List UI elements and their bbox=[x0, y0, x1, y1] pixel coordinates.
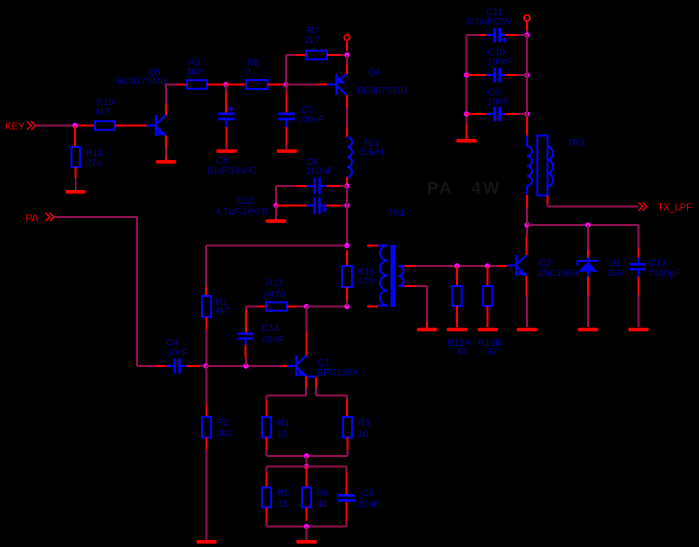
label R1 value bbox=[215, 297, 230, 317]
resistor R6 bbox=[302, 488, 311, 508]
svg-text:100nF: 100nF bbox=[487, 57, 514, 68]
wire C8 bottom stub (blue) bbox=[226, 120, 228, 127]
junction C10 right bbox=[524, 72, 529, 77]
transistor Q2 bbox=[507, 255, 527, 276]
wire Q2 emitter to ground bbox=[526, 296, 528, 327]
resistor R7 bbox=[306, 51, 327, 60]
junction TL1/C6 bbox=[344, 183, 349, 188]
label R2 value bbox=[216, 418, 231, 440]
transistor Q1 emitter extension bbox=[306, 375, 317, 377]
wire R16 top pin (red) bbox=[346, 250, 348, 266]
junction rail/D1 bbox=[585, 222, 590, 227]
resistor R17 bbox=[266, 302, 287, 310]
wire R3 top pin (red) bbox=[346, 400, 348, 417]
wire net C12 to junction bbox=[340, 205, 347, 207]
svg-text:R17: R17 bbox=[266, 278, 283, 289]
junction R16 bottom/TR1 bottom bbox=[344, 304, 349, 309]
wire R11 top pin bbox=[74, 126, 76, 148]
wire net right rail to TR2 (red) bbox=[526, 118, 528, 136]
transformer TR2 core rectangle bbox=[537, 136, 547, 196]
label C13 value bbox=[648, 258, 680, 279]
supply terminal circle top bbox=[524, 15, 530, 21]
label R17 value bbox=[264, 278, 285, 301]
label C11 value bbox=[466, 7, 513, 28]
svg-text:100uF/25V: 100uF/25V bbox=[466, 17, 513, 28]
inductor TL1 bbox=[347, 137, 352, 177]
label TR2 name bbox=[567, 138, 585, 149]
wire C14 bottom pin (red) bbox=[245, 345, 247, 358]
svg-text:BC817SMD: BC817SMD bbox=[117, 76, 167, 87]
wire net R5 box bottom rail bbox=[267, 521, 347, 527]
wire left rail ground stem (red) bbox=[466, 125, 468, 139]
wire net Q4 emitter to junction bbox=[346, 55, 348, 64]
wire C11 right stub (blue) bbox=[500, 34, 506, 36]
capacitor C10 bbox=[493, 68, 501, 83]
svg-text:PA: PA bbox=[26, 213, 39, 225]
wire R17 left pin (red) bbox=[257, 306, 266, 308]
wire net Q1 emitter left branch bbox=[267, 387, 307, 400]
svg-text:R2: R2 bbox=[217, 418, 229, 429]
svg-text:100nF: 100nF bbox=[306, 166, 333, 177]
resistor R12A bbox=[452, 286, 461, 306]
wire R12B top pin (red) bbox=[487, 266, 489, 286]
svg-text:4.7uF/16V-B: 4.7uF/16V-B bbox=[216, 207, 269, 218]
junction R9/C8/R8 bbox=[223, 82, 228, 87]
wire net R16 bottom bbox=[346, 301, 348, 307]
transformer TR1 secondary winding bbox=[399, 266, 404, 286]
wire R5 bottom pin (red) bbox=[266, 508, 268, 522]
label R8 value bbox=[245, 58, 259, 78]
resistor R12B bbox=[483, 286, 492, 306]
wire TL1 bottom pin (red) bbox=[346, 177, 348, 186]
wire pin R10 left (red) bbox=[80, 125, 95, 127]
wire net R8 to Q4 base bbox=[286, 84, 317, 86]
wire C8 bottom pin (red) bbox=[226, 127, 228, 145]
svg-text:2k2: 2k2 bbox=[216, 428, 231, 439]
ground under D1 bbox=[578, 328, 598, 332]
label R7 value bbox=[305, 26, 320, 47]
capacitor C5 bbox=[338, 494, 355, 502]
wire D1 top pin (red) bbox=[587, 250, 589, 258]
wire C11 left stub (blue) bbox=[487, 34, 494, 36]
label C5 value bbox=[358, 488, 380, 510]
svg-text:C5: C5 bbox=[362, 488, 374, 499]
wire net R5 box top rail bbox=[267, 467, 347, 473]
wire Q5 collector pin stub (red) bbox=[165, 104, 167, 115]
svg-text:C14: C14 bbox=[262, 323, 279, 334]
wire R1 top pin (red) bbox=[205, 287, 207, 296]
wire net TL1 down to R16 row bbox=[346, 186, 348, 246]
port chevron KEY bbox=[27, 121, 36, 129]
junction R7/Q4 emitter/supply bbox=[344, 52, 349, 57]
junction R16 top/TR1 top bbox=[344, 243, 349, 248]
transistor Q5 bbox=[147, 115, 167, 136]
transformer TR1 primary stub bottom bbox=[378, 305, 388, 307]
wire C10 left stub (blue) bbox=[487, 74, 494, 76]
wire net R1 to base row bbox=[206, 330, 208, 366]
wire net C11 to rail bbox=[517, 34, 527, 36]
capacitor C14 bbox=[238, 333, 254, 340]
wire Q4 emitter pin up (red) bbox=[346, 64, 348, 74]
wire net up to R7 row bbox=[286, 55, 296, 85]
svg-text:2SC1969: 2SC1969 bbox=[538, 268, 578, 279]
label R12A value bbox=[447, 338, 471, 358]
wire C4 left pin (red) bbox=[156, 365, 167, 367]
wire net C4 to junction bbox=[199, 365, 206, 367]
net label TX_LPF bbox=[658, 203, 693, 214]
label C8 value bbox=[206, 156, 257, 177]
transformer TR2 secondary winding bbox=[548, 143, 554, 196]
wire C10 right pin (red) bbox=[506, 74, 519, 76]
svg-text:470: 470 bbox=[358, 276, 374, 287]
wire C13 bottom stub (blue) bbox=[638, 271, 640, 277]
ground under C13 bbox=[628, 328, 648, 332]
wire R11 bottom pin bbox=[75, 167, 77, 178]
wire TL1 top pin (red) bbox=[346, 127, 348, 137]
wire C4 left stub (blue) bbox=[167, 365, 174, 367]
label R12B value bbox=[478, 338, 502, 358]
label R3 value bbox=[358, 418, 370, 440]
wire C11 left pin (red) bbox=[480, 34, 487, 36]
wire C12 left stub (blue) bbox=[307, 205, 314, 207]
wire net TX_LPF run bbox=[548, 204, 639, 207]
wire C14 top pin (red) bbox=[245, 310, 247, 333]
label TR1 name bbox=[387, 208, 405, 219]
svg-text:#1nF: #1nF bbox=[262, 335, 284, 346]
diode D1 zener bbox=[578, 258, 599, 277]
wire TR1 primary top pin (red) bbox=[367, 245, 378, 247]
ground under C7 bbox=[277, 149, 297, 153]
wire Q2 base pin (red) bbox=[497, 265, 507, 267]
resistor R11 bbox=[71, 147, 80, 167]
wire net R2 top bbox=[206, 366, 208, 405]
resistor R3 bbox=[343, 417, 352, 438]
wire R7 right pin (red) bbox=[327, 54, 340, 56]
svg-text:#120pF: #120pF bbox=[648, 268, 680, 279]
svg-text:#470: #470 bbox=[264, 290, 285, 301]
svg-text:10: 10 bbox=[358, 429, 369, 440]
svg-text:0: 0 bbox=[245, 67, 250, 78]
wire C10 left pin (red) bbox=[467, 74, 487, 76]
label R9 value bbox=[186, 58, 201, 78]
resistor R9 bbox=[187, 80, 207, 89]
capacitor C12 bbox=[314, 197, 321, 214]
wire net C9 right bbox=[518, 113, 527, 115]
ground under C8 bbox=[216, 149, 236, 153]
junction R12A top bbox=[454, 263, 459, 268]
wire net R4-R3 bottom rail bbox=[267, 450, 348, 456]
capacitor C11 plus sign bbox=[502, 38, 507, 43]
wire C4 right pin (red) bbox=[187, 365, 200, 367]
wire TR1 secondary top pin (red) bbox=[405, 265, 416, 267]
ground under R11 bbox=[66, 190, 86, 194]
capacitor C13 bbox=[630, 263, 646, 271]
wire C4 right stub (blue) bbox=[180, 365, 187, 367]
wire Q1 base pin (red) bbox=[282, 365, 287, 367]
transformer TR1 secondary stub top bbox=[399, 265, 406, 267]
transformer TR1 primary winding bbox=[380, 246, 388, 306]
wire net collector rail bbox=[527, 224, 639, 226]
wire net supply to C11 bbox=[526, 30, 528, 35]
label C14 value bbox=[262, 323, 284, 346]
wire net feedback row bbox=[206, 246, 347, 288]
wire net C13 top bbox=[638, 225, 640, 248]
svg-text:BC807SMD: BC807SMD bbox=[357, 86, 407, 97]
wire R2 top pin (red) bbox=[206, 405, 208, 417]
supply terminal circle bbox=[344, 35, 349, 40]
ground under C12 bbox=[266, 219, 286, 223]
wire D1 bottom pin (red) bbox=[587, 277, 589, 296]
wire net R17 row to R16 bbox=[307, 306, 348, 308]
wire C14 bottom stub (blue) bbox=[245, 340, 247, 345]
label R4 value bbox=[277, 418, 289, 440]
capacitor C12 plus sign bbox=[322, 207, 327, 212]
label R16 value bbox=[358, 267, 375, 288]
svg-text:R3: R3 bbox=[358, 418, 370, 429]
svg-text:10uF/16V-C: 10uF/16V-C bbox=[206, 166, 257, 177]
junction R12B top bbox=[485, 263, 490, 268]
wire net PA run bbox=[55, 217, 157, 366]
wire net C10 right bbox=[518, 74, 527, 76]
wire net base row bbox=[206, 365, 282, 367]
label C12 value bbox=[216, 196, 269, 218]
wire box ground stem bbox=[306, 527, 308, 541]
wire C7 to ground bbox=[286, 145, 288, 150]
svg-text:10nF: 10nF bbox=[167, 348, 189, 359]
svg-text:36V: 36V bbox=[608, 268, 626, 279]
wire net Q4 collector to TL1 bbox=[346, 108, 348, 127]
wire net C14 to base row bbox=[245, 358, 247, 366]
wire R12B bottom pin (red) bbox=[487, 306, 489, 327]
label C6 value bbox=[306, 157, 333, 177]
wire C11 right pin (red) bbox=[506, 34, 519, 36]
junction C11 right bbox=[524, 32, 529, 37]
resistor R16 bbox=[342, 266, 352, 287]
junction C10 left bbox=[464, 72, 469, 77]
wire net TR2 primary to rail bbox=[526, 208, 528, 225]
ground under R2 bbox=[196, 540, 216, 544]
wire C5 top pin (red) bbox=[346, 472, 348, 494]
wire net C7 top bbox=[286, 85, 288, 94]
wire net R17 to junction bbox=[297, 306, 307, 308]
wire net C8 top bbox=[225, 85, 227, 94]
wire Q5 emitter to ground bbox=[165, 148, 167, 158]
wire net Q2 base row bbox=[415, 265, 497, 267]
wire net Q2 collector to rail bbox=[526, 225, 528, 236]
transistor Q1 bbox=[287, 356, 307, 377]
wire net left rail bbox=[467, 35, 481, 125]
wire Q1 emitter left pin (red) bbox=[305, 377, 307, 388]
wire TR1 primary bottom pin (red) bbox=[367, 306, 378, 308]
capacitor C11 bbox=[493, 28, 501, 43]
wire C7 bottom stub (blue) bbox=[286, 120, 288, 127]
svg-text:4k7: 4k7 bbox=[215, 306, 230, 317]
junction C12 left bbox=[273, 203, 278, 208]
junction R17/Q1 collector bbox=[304, 304, 309, 309]
wire Q4 collector pin down (red) bbox=[346, 95, 348, 108]
svg-text:47: 47 bbox=[487, 347, 498, 358]
ground under capacitor bank bbox=[456, 139, 476, 143]
wire net R7 to junction bbox=[340, 54, 347, 56]
wire C9 right pin (red) bbox=[506, 113, 519, 115]
svg-text:R4: R4 bbox=[277, 418, 289, 429]
wire Q5 ground stem (red) bbox=[165, 157, 167, 162]
svg-text:TX_LPF: TX_LPF bbox=[658, 203, 693, 214]
svg-text:10: 10 bbox=[277, 429, 288, 440]
label TL1 value bbox=[361, 138, 384, 158]
transformer TR1 primary stub top bbox=[378, 245, 388, 247]
wire C13 bottom pin (red) bbox=[638, 277, 640, 296]
svg-text:53uH: 53uH bbox=[361, 147, 384, 158]
wire R1 bottom pin (red) bbox=[206, 317, 208, 330]
svg-text:PA 4W: PA 4W bbox=[427, 179, 501, 198]
wire Q5 emitter pin stub (red) bbox=[165, 136, 167, 148]
label D1 value bbox=[608, 258, 626, 279]
wire net TR1 sec bottom to ground bbox=[416, 286, 427, 327]
svg-text:27k: 27k bbox=[86, 158, 102, 169]
wire C6 left stub (blue) bbox=[307, 185, 314, 187]
wire C6 right pin (red) bbox=[327, 185, 341, 187]
wire net Q1 collector riser bbox=[306, 307, 308, 333]
wire R6 top pin (red) bbox=[306, 467, 308, 488]
wire Q1 collector pin (red) bbox=[306, 332, 308, 356]
wire Q2 emitter pin (red) bbox=[526, 276, 528, 296]
label Q5 name bbox=[117, 67, 167, 87]
wire C5 bottom pin (red) bbox=[346, 502, 348, 521]
wire R9 left pin (red) bbox=[177, 84, 188, 86]
wire R2 bottom pin (red) bbox=[206, 438, 208, 451]
wire R6 bottom pin (red) bbox=[306, 508, 308, 522]
wire R16 bottom pin (red) bbox=[346, 287, 348, 301]
wire C6 left pin (red) bbox=[296, 185, 307, 187]
wire pin R10 right to Q5 base (red) bbox=[115, 125, 147, 127]
resistor R1 bbox=[202, 296, 211, 317]
wire net R2 to ground bbox=[206, 450, 208, 540]
svg-text:C12: C12 bbox=[237, 196, 254, 207]
junction rail/TR2/Q2 bbox=[524, 222, 529, 227]
junction R8/C7/R7-branch bbox=[283, 82, 288, 87]
wire C10 right stub (blue) bbox=[500, 74, 506, 76]
wire C12 right pin (red) bbox=[327, 205, 341, 207]
svg-text:R5: R5 bbox=[277, 488, 289, 499]
wire C12 left pin (red) bbox=[276, 205, 307, 207]
wire C9 left pin (red) bbox=[467, 113, 487, 115]
wire C13 top pin (red) bbox=[638, 248, 640, 258]
wire TR2 primary bottom pin (red) bbox=[526, 195, 528, 208]
wire net C6 left branch bbox=[276, 185, 296, 187]
label Q2 name bbox=[538, 258, 578, 279]
capacitor C9 bbox=[493, 107, 501, 122]
wire net right rail bbox=[526, 35, 528, 118]
wire Q2 collector pin (red) bbox=[526, 236, 528, 255]
wire supply stem (red) bbox=[526, 22, 528, 31]
svg-text:2k7: 2k7 bbox=[305, 35, 320, 46]
label C10 value bbox=[487, 47, 514, 68]
wire R7 left pin (red) bbox=[296, 54, 306, 56]
wire net KEY horizontal bbox=[36, 125, 81, 127]
wire net Q1 emitter right branch bbox=[316, 387, 347, 400]
svg-text:10nF: 10nF bbox=[487, 97, 509, 108]
wire R11 to ground bbox=[75, 178, 77, 190]
junction R4/R3 rail bbox=[304, 453, 309, 458]
transformer TR1 core bar bbox=[391, 245, 396, 307]
wire C8 to ground bbox=[226, 145, 228, 150]
label C9 value bbox=[487, 87, 509, 108]
wire C8 top pin (red) bbox=[225, 93, 227, 113]
wire C12 right stub (blue) bbox=[320, 205, 327, 207]
label R5 value bbox=[277, 488, 289, 510]
resistor R5 bbox=[262, 488, 271, 508]
label Q1 name bbox=[317, 358, 359, 379]
wire net Q5 collector up bbox=[165, 84, 177, 104]
transformer TR2 primary winding bbox=[527, 136, 532, 195]
resistor R2 bbox=[202, 417, 211, 438]
wire R4 top pin (red) bbox=[266, 400, 268, 417]
resistor R10 bbox=[95, 121, 115, 130]
svg-text:TR2: TR2 bbox=[567, 138, 585, 149]
wire net left rail C6-C12 bbox=[275, 186, 277, 206]
wire TR1 secondary bottom pin (red) bbox=[405, 285, 417, 287]
wire C13 to ground bbox=[638, 295, 640, 327]
ground under Q5 bbox=[156, 160, 176, 164]
junction C9 right bbox=[524, 111, 529, 116]
junction C9 left bbox=[464, 111, 469, 116]
label R11 value bbox=[86, 148, 103, 169]
svg-text:4k7: 4k7 bbox=[95, 107, 110, 118]
wire C13 top stub (blue) bbox=[638, 258, 640, 264]
ground under TR1 secondary bbox=[417, 322, 437, 331]
wire C7 top pin (red) bbox=[286, 93, 288, 113]
junction C14 bottom bbox=[243, 363, 248, 368]
svg-text:100nF: 100nF bbox=[297, 115, 324, 126]
wire R12A bottom pin (red) bbox=[456, 306, 458, 327]
port chevron PA bbox=[46, 213, 55, 221]
wire R5 top pin (red) bbox=[266, 472, 268, 488]
label R6 value bbox=[317, 488, 329, 510]
wire TR2 secondary bottom pin (red) bbox=[547, 196, 549, 205]
wire C7 bottom pin (red) bbox=[286, 127, 288, 145]
wire net D1 top bbox=[587, 225, 589, 250]
ground under R5/R6/C5 bbox=[296, 540, 316, 544]
junction R5 box top bbox=[304, 464, 309, 469]
svg-text:33: 33 bbox=[277, 499, 288, 510]
capacitor C7 bbox=[278, 113, 295, 121]
junction C12 right bbox=[344, 203, 349, 208]
ground under R12A bbox=[447, 328, 467, 332]
wire net C6 to junction bbox=[340, 185, 347, 187]
resistor R8 bbox=[246, 80, 268, 89]
wire C6 right stub (blue) bbox=[320, 185, 327, 187]
wire supply stem bbox=[346, 42, 348, 52]
wire Q4 base pin (red) bbox=[317, 84, 327, 86]
ground under Q2 bbox=[517, 328, 537, 332]
wire R17 right pin (red) bbox=[287, 306, 297, 308]
svg-text:BFG135A: BFG135A bbox=[317, 368, 359, 379]
label R10 value bbox=[95, 97, 113, 118]
transformer TR1 secondary stub bottom bbox=[399, 285, 406, 287]
wire R4 bottom pin (red) bbox=[266, 438, 268, 451]
wire Q1 emitter right pin (red) bbox=[315, 377, 317, 387]
wire R12A top pin (red) bbox=[456, 266, 458, 286]
junction KEY/R10/R11 bbox=[72, 123, 77, 128]
wire pin R8 right (red) bbox=[268, 84, 287, 86]
svg-text:KEY: KEY bbox=[5, 122, 25, 133]
ground under R12B bbox=[478, 328, 498, 332]
wire net rail link bbox=[306, 456, 308, 467]
label C7 value bbox=[297, 105, 324, 126]
wire C8 to R8 (red) bbox=[226, 84, 246, 86]
svg-text:47: 47 bbox=[457, 347, 468, 358]
